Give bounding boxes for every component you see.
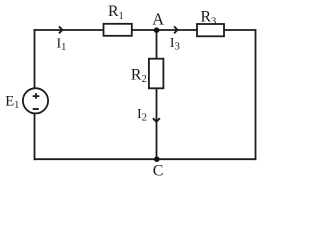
wire top (left corner to right corner) xyxy=(35,29,256,31)
svg-text:A: A xyxy=(152,9,164,28)
wire left xyxy=(34,30,36,159)
resistor R1 xyxy=(104,24,132,36)
arrow I3 current direction xyxy=(174,26,177,33)
resistor R2 xyxy=(149,59,164,89)
node A xyxy=(154,27,160,33)
arrow I1 current direction xyxy=(59,26,62,33)
node C xyxy=(154,156,160,162)
arrow I2 current direction xyxy=(153,118,160,122)
wire right xyxy=(255,30,257,159)
svg-text:C: C xyxy=(153,163,164,180)
wire middle branch A to C xyxy=(156,30,158,159)
voltage source E1 xyxy=(23,88,48,113)
resistor R3 xyxy=(197,24,224,36)
wire bottom xyxy=(35,158,256,160)
